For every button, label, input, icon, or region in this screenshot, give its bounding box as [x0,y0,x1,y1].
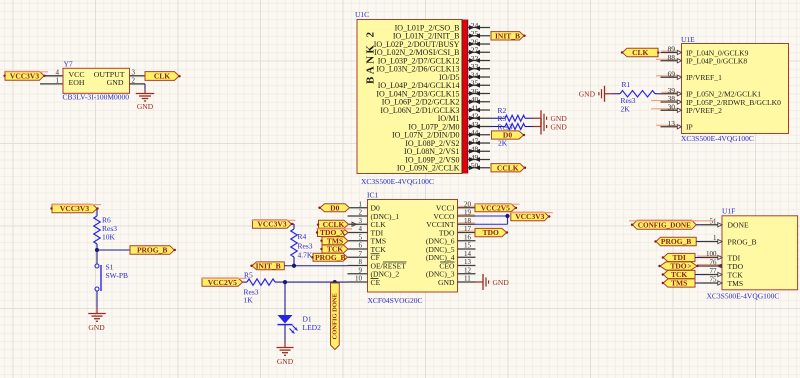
svg-text:GND: GND [277,357,294,366]
svg-text:XC3S500E-4VQG100C: XC3S500E-4VQG100C [361,177,434,186]
svg-text:TMS: TMS [671,279,687,288]
svg-text:2: 2 [132,76,136,84]
svg-text:R1: R1 [622,80,631,89]
svg-text:GND: GND [88,323,105,332]
svg-text:2: 2 [359,209,363,217]
svg-text:CLK: CLK [632,48,648,57]
svg-text:LED2: LED2 [303,323,322,332]
svg-text:VCC3V3: VCC3V3 [10,71,39,80]
svg-text:69: 69 [668,69,676,78]
svg-text:INIT_B: INIT_B [495,31,520,40]
svg-text:D0: D0 [330,203,339,212]
svg-text:2K: 2K [621,104,631,113]
svg-text:14: 14 [464,250,472,258]
svg-text:50: 50 [471,161,479,170]
svg-text:XCF04SVOG20C: XCF04SVOG20C [368,296,423,305]
svg-text:CONFIG DONE: CONFIG DONE [331,293,338,339]
svg-text:SW-PB: SW-PB [106,271,129,280]
svg-text:VCC2V5: VCC2V5 [208,278,237,287]
svg-text:6: 6 [359,242,363,250]
svg-text:VCC3V3: VCC3V3 [515,212,544,221]
svg-text:77: 77 [710,267,718,275]
svg-text:INIT_B: INIT_B [256,261,281,270]
svg-text:3: 3 [132,68,136,76]
svg-text:7: 7 [359,250,363,258]
svg-text:PROG_B: PROG_B [728,237,757,246]
svg-text:TMS: TMS [728,279,744,288]
svg-text:16: 16 [464,233,472,241]
svg-text:GND: GND [579,90,596,99]
svg-text:R5: R5 [244,271,253,280]
svg-text:DONE: DONE [728,221,749,230]
svg-text:8: 8 [359,258,363,266]
svg-text:EOH: EOH [69,78,85,87]
svg-text:15: 15 [464,242,472,250]
svg-text:2K: 2K [498,138,508,147]
svg-text:3: 3 [359,217,363,225]
svg-text:20: 20 [464,200,472,208]
svg-text:5: 5 [359,233,363,241]
svg-text:30: 30 [668,102,676,111]
svg-text:4: 4 [359,225,363,233]
svg-text:>: > [688,263,692,271]
svg-text:12: 12 [464,266,472,274]
svg-text:1K: 1K [244,296,254,305]
svg-text:TDO: TDO [483,228,499,237]
svg-text:10K: 10K [102,233,116,242]
svg-text:11: 11 [464,275,471,283]
svg-text:18: 18 [464,217,472,225]
svg-text:Y7: Y7 [64,60,73,69]
svg-text:IO_L09N_2/CCLK: IO_L09N_2/CCLK [397,164,460,173]
svg-text:17: 17 [464,225,472,233]
svg-text:CE: CE [371,278,381,287]
svg-text:XC3S500E-4VQG100C: XC3S500E-4VQG100C [681,134,754,143]
svg-text:GND: GND [137,102,154,111]
svg-text:PROG_B: PROG_B [315,253,345,262]
svg-text:PROG_B: PROG_B [661,237,691,246]
svg-text:VCC2V5: VCC2V5 [481,203,510,212]
svg-text:GND: GND [438,278,455,287]
svg-text:GND: GND [551,122,568,131]
svg-text:PROG_B: PROG_B [137,246,167,255]
svg-text:VCC3V3: VCC3V3 [60,204,89,213]
svg-text:XC3S500E-4VQG100C: XC3S500E-4VQG100C [707,292,780,301]
svg-text:CB3LV-3I-100M0000: CB3LV-3I-100M0000 [63,93,130,102]
svg-text:13: 13 [668,119,676,128]
svg-text:VCC3V3: VCC3V3 [257,220,286,229]
svg-text:Res3: Res3 [298,242,313,251]
svg-text:4: 4 [56,68,60,76]
svg-text:U1E: U1E [681,35,695,44]
svg-text:CONFIG_DONE: CONFIG_DONE [638,221,691,229]
svg-text:D0: D0 [503,131,512,140]
svg-text:88: 88 [668,53,676,62]
svg-text:GND: GND [107,78,124,87]
svg-text:U1F: U1F [722,207,735,216]
svg-text:1: 1 [359,200,363,208]
svg-text:75: 75 [710,276,718,284]
svg-text:4.7K: 4.7K [298,251,313,260]
svg-text:GND: GND [493,278,510,287]
svg-text:IP/VREF_2: IP/VREF_2 [686,106,722,115]
svg-text:19: 19 [464,209,472,217]
svg-text:1: 1 [56,76,60,84]
svg-text:100: 100 [706,250,717,258]
svg-text:IP_L04P_0/GCLK8: IP_L04P_0/GCLK8 [686,57,747,66]
svg-text:U1C: U1C [355,10,369,19]
svg-text:76: 76 [710,259,718,267]
svg-text:13: 13 [464,258,472,266]
svg-text:CLK: CLK [154,72,170,81]
svg-text:CCLK: CCLK [497,163,519,172]
svg-text:10: 10 [355,275,363,283]
svg-text:IP/VREF_1: IP/VREF_1 [686,73,722,82]
svg-text:9: 9 [359,266,363,274]
svg-text:IC1: IC1 [367,191,379,200]
svg-text:R4: R4 [298,232,307,241]
svg-text:IP: IP [686,123,693,132]
svg-text:1: 1 [713,234,717,242]
